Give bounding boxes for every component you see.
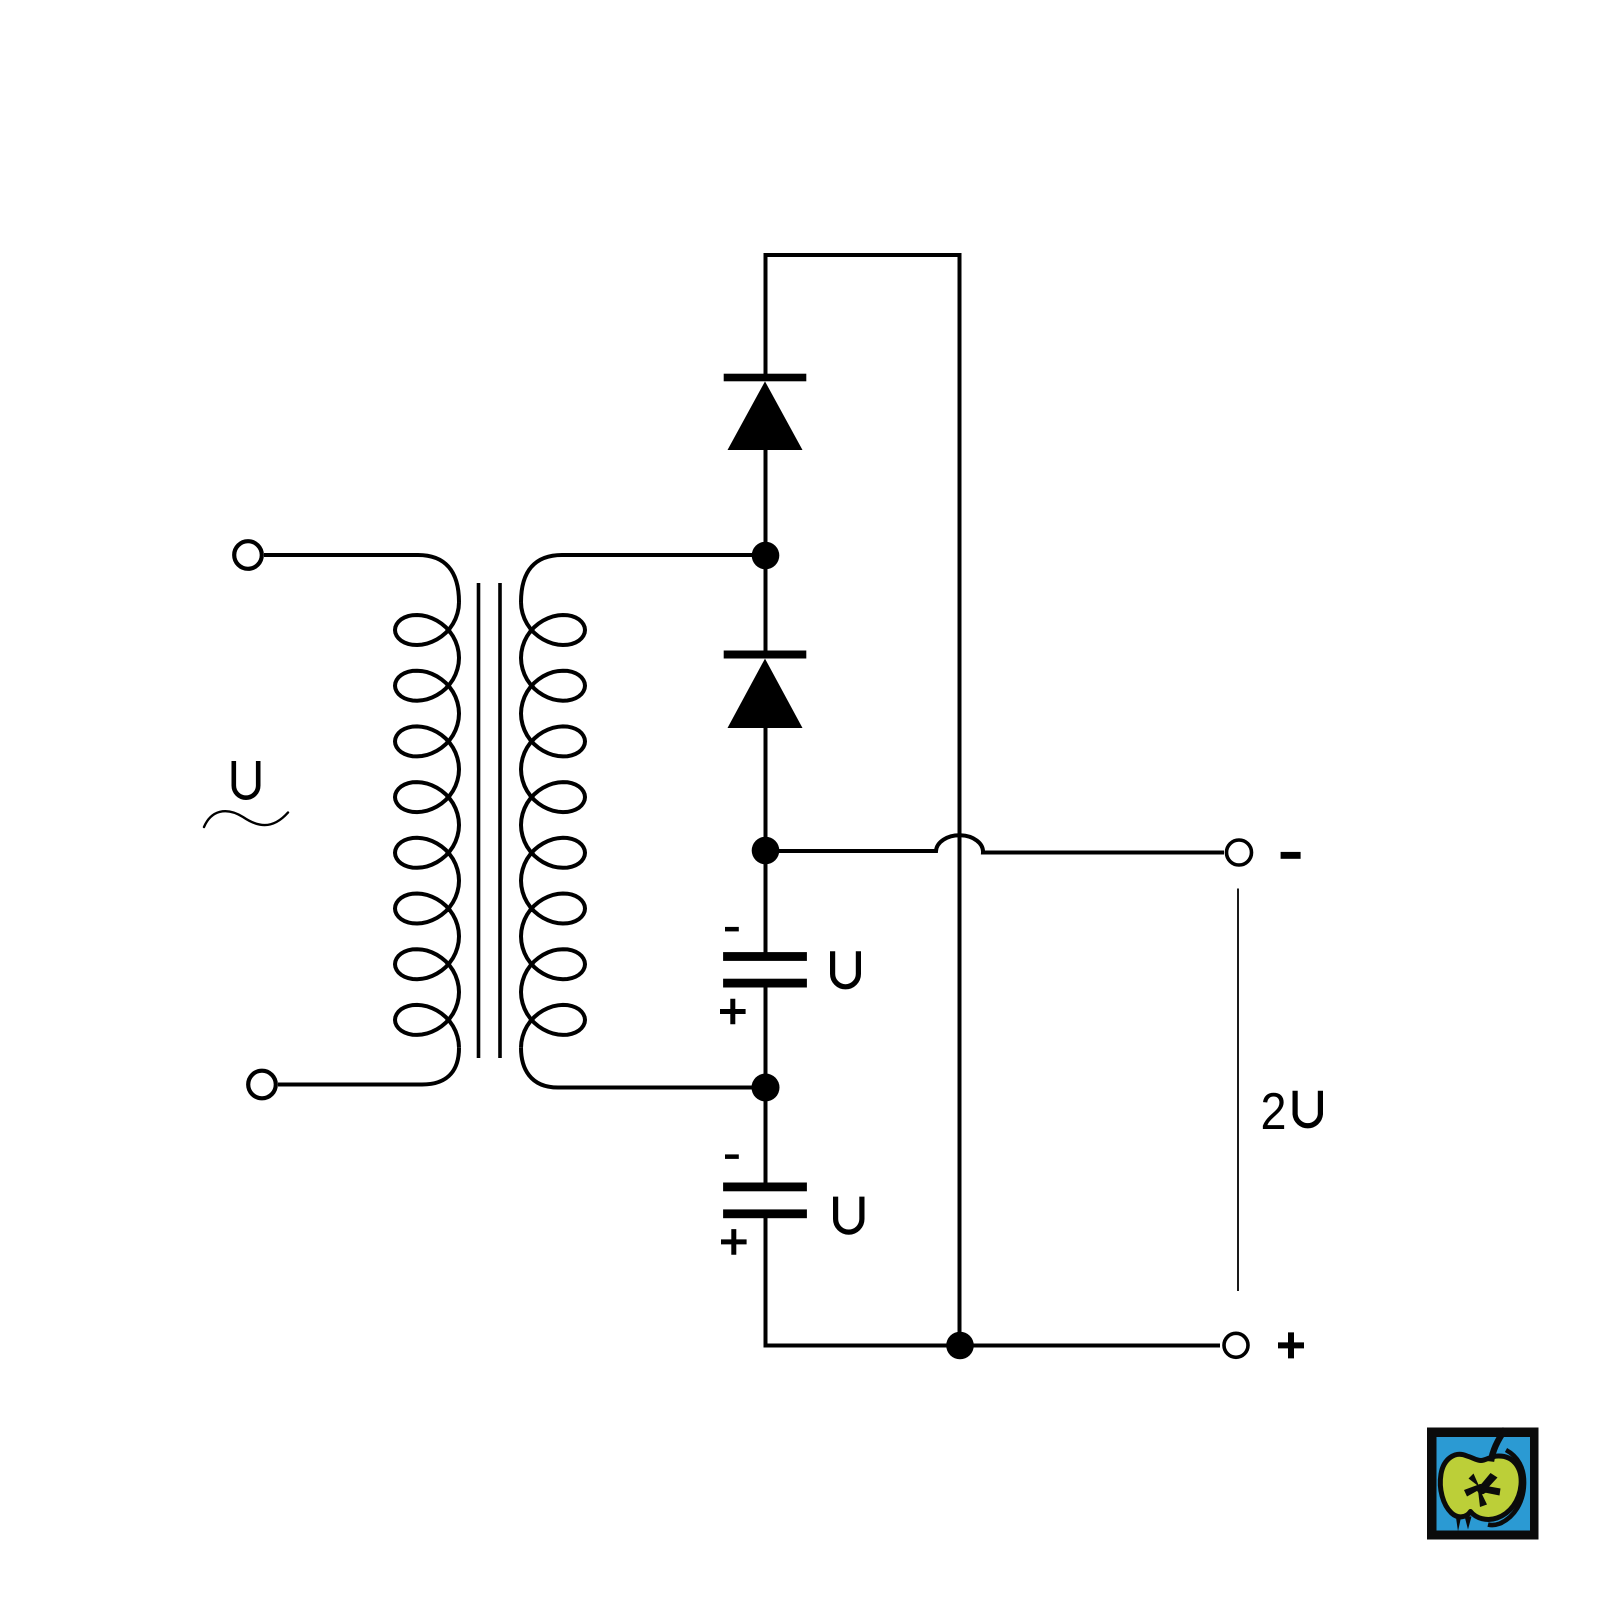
logo apple outline swoosh right [1488, 1450, 1524, 1525]
capacitor C2 minus mark [725, 1154, 739, 1159]
svg-text:2: 2 [1261, 1082, 1287, 1140]
wire secondary top lead to node A [521, 555, 766, 602]
capacitor C2 plate bottom [723, 1209, 807, 1218]
wire node B to C1 [764, 851, 768, 953]
logo apple stem [1491, 1429, 1506, 1462]
diode D2 triangle [728, 659, 803, 728]
terminal primary top [234, 541, 262, 569]
output plus label [1278, 1332, 1304, 1358]
transformer T1 primary winding [395, 602, 459, 1048]
node C junction dot [752, 1074, 780, 1102]
output terminal plus [1224, 1333, 1248, 1357]
node B junction dot [752, 837, 780, 865]
transformer core line right [498, 583, 502, 1058]
transformer T1 secondary winding [521, 602, 585, 1048]
wire node B to minus terminal with hop over right branch [766, 835, 1225, 852]
node A junction dot [752, 542, 780, 570]
transformer core line left [477, 583, 481, 1058]
label U of 2U [1295, 1091, 1320, 1126]
diode D1 cathode bar [724, 374, 807, 382]
logo outer black square [1427, 1428, 1539, 1540]
capacitor C1 minus mark [725, 927, 739, 932]
capacitor C2 plate top [723, 1183, 807, 1192]
wire top rail [764, 253, 962, 257]
wire primary top lead [264, 555, 459, 602]
capacitor C1 plate top [723, 952, 807, 961]
output minus label [1281, 852, 1301, 859]
wire secondary bottom lead to node C [521, 1048, 766, 1088]
wire primary bottom lead [278, 1048, 459, 1085]
wire D1 anode to node A [764, 449, 768, 556]
output terminal minus [1227, 840, 1252, 865]
logo blue inner square [1437, 1437, 1531, 1531]
2U measurement line [1237, 889, 1239, 1292]
wire right vertical branch [958, 253, 962, 1346]
wire node C to C2 [764, 1087, 768, 1183]
logo apple root spikes [1456, 1514, 1472, 1532]
wire node A to D2 cathode [764, 555, 768, 652]
wire D2 anode to node B [764, 727, 768, 851]
diode D2 cathode bar [724, 651, 807, 659]
capacitor C2 plus mark [721, 1229, 747, 1255]
wire C2 to bottom rail corner [764, 1217, 768, 1346]
logo apple green body [1440, 1454, 1521, 1519]
capacitor C1 plate bottom [723, 979, 807, 988]
wire C1 to node C [764, 987, 768, 1088]
logo apple core star [1464, 1473, 1501, 1507]
wire left branch top (rail to D1 cathode) [764, 253, 768, 375]
label U source [234, 761, 258, 798]
label U capacitor C2 [836, 1197, 862, 1233]
terminal primary bottom [248, 1071, 276, 1099]
capacitor C1 plus mark [720, 999, 746, 1025]
label U capacitor C1 [833, 951, 859, 987]
diode D1 triangle [728, 381, 803, 450]
node D junction dot (bottom rail / right branch) [946, 1332, 974, 1360]
AC tilde symbol [204, 811, 288, 827]
wire bottom rail [764, 1344, 1221, 1348]
